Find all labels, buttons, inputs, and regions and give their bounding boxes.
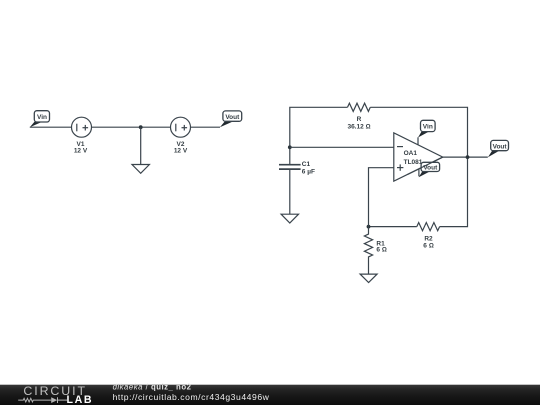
- wire V2 to Vout flag: [191, 126, 221, 128]
- net flag Vout (left circuit): [220, 111, 242, 127]
- wire top-left segment (right circuit): [290, 107, 348, 164]
- svg-text:TL081: TL081: [404, 159, 423, 166]
- svg-text:LAB: LAB: [67, 394, 94, 405]
- svg-text:R2: R2: [424, 235, 433, 242]
- svg-text:36.12 Ω: 36.12 Ω: [347, 124, 370, 131]
- wire to op-amp non-inverting input: [369, 168, 394, 227]
- wire to op-amp inverting input: [290, 146, 394, 148]
- wire V1 to V2: [92, 126, 171, 128]
- footer bar: [0, 383, 540, 405]
- net flag Vin (left circuit): [30, 111, 50, 128]
- wire Vin to V1: [30, 126, 72, 128]
- net flag Vout (output): [488, 140, 509, 157]
- wire top-right segment and right rail: [370, 107, 467, 226]
- ground (C1): [281, 214, 298, 223]
- svg-text:6 µF: 6 µF: [302, 169, 315, 176]
- node at left rail: [288, 145, 292, 149]
- logo schematic doodle: wire, resistor, diode: [18, 397, 67, 403]
- capacitor C1: [279, 161, 315, 176]
- node feedback junction: [367, 225, 371, 229]
- svg-text:dikaeka / quiz_ no2: dikaeka / quiz_ no2: [113, 383, 192, 392]
- svg-text:6 Ω: 6 Ω: [376, 247, 386, 254]
- svg-text:C1: C1: [302, 161, 311, 168]
- svg-text:Vin: Vin: [37, 114, 47, 121]
- wire junction to ground: [140, 127, 142, 164]
- voltage source V1: [72, 117, 92, 155]
- ground (R1): [360, 274, 377, 282]
- resistor R1: [364, 227, 386, 275]
- voltage source V2: [171, 117, 191, 155]
- net flag Vout (op-amp V-): [408, 157, 443, 177]
- net flag Vin (op-amp V+): [418, 120, 435, 137]
- wire C1 to ground: [289, 169, 291, 214]
- svg-text:R: R: [357, 116, 362, 123]
- svg-text:6 Ω: 6 Ω: [423, 242, 433, 249]
- svg-text:Vin: Vin: [423, 124, 433, 131]
- node junction (left): [139, 125, 143, 129]
- op-amp V- pin: [418, 169, 420, 176]
- svg-text:12 V: 12 V: [174, 148, 188, 155]
- node at output: [466, 155, 470, 159]
- svg-text:OA1: OA1: [404, 150, 418, 157]
- svg-text:Vout: Vout: [225, 114, 240, 121]
- svg-text:12 V: 12 V: [74, 148, 88, 155]
- resistor R: [347, 103, 370, 130]
- op-amp OA1: [394, 133, 443, 181]
- wire op-amp output: [443, 156, 488, 158]
- svg-text:http://circuitlab.com/cr434g3u: http://circuitlab.com/cr434g3u4496w: [113, 392, 270, 402]
- wire feedback bottom left: [369, 226, 417, 228]
- resistor R2: [417, 223, 440, 250]
- op-amp V+ pin: [417, 137, 419, 145]
- ground (left circuit): [132, 165, 149, 174]
- svg-text:Vout: Vout: [493, 143, 508, 150]
